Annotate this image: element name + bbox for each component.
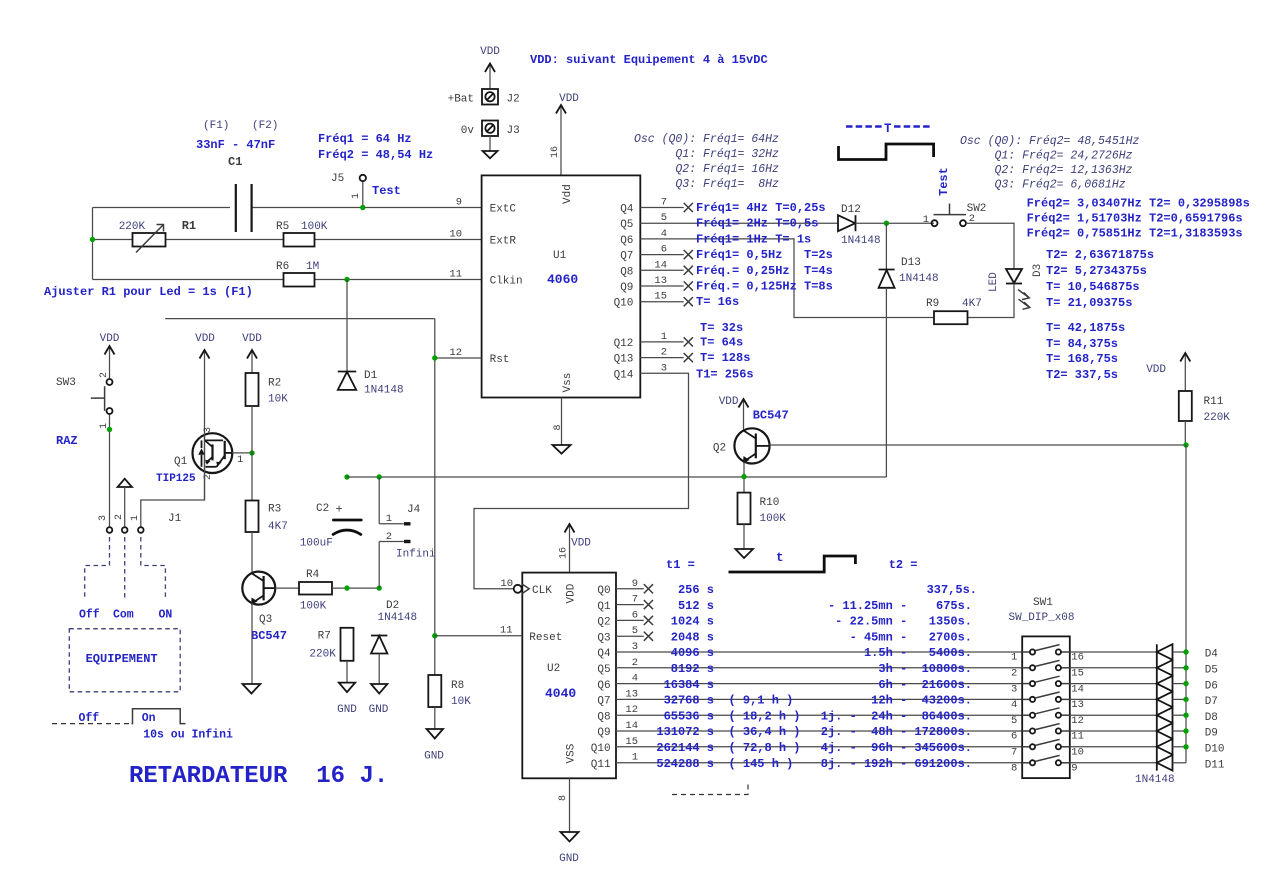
svg-text:4j. - 96h - 345600s.: 4j. - 96h - 345600s. [821, 741, 972, 755]
svg-text:Q6: Q6 [597, 680, 610, 692]
svg-text:VDD: VDD [242, 333, 262, 345]
svg-text:Infini: Infini [396, 549, 436, 561]
label t1 column [656, 583, 800, 771]
svg-text:Q1: Q1 [174, 456, 188, 468]
svg-text:T= 10,546875s: T= 10,546875s [1046, 280, 1140, 294]
svg-text:15: 15 [654, 291, 667, 303]
pin Q7 NC [640, 250, 693, 259]
svg-text:3: 3 [632, 641, 638, 653]
svg-text:ON: ON [159, 609, 173, 622]
svg-text:Test: Test [372, 184, 401, 198]
wire RAZ vertical [434, 319, 436, 675]
svg-text:SW2: SW2 [967, 203, 987, 215]
svg-text:(F2): (F2) [252, 120, 278, 132]
svg-text:7: 7 [1011, 747, 1017, 759]
svg-text:Fréq2= 3,03407Hz T2= 0,3295898: Fréq2= 3,03407Hz T2= 0,3295898s [1027, 197, 1250, 211]
svg-text:1: 1 [632, 752, 638, 764]
wire R8 to ground [434, 707, 436, 729]
waveform t [729, 551, 856, 572]
wire SW3 to rail [109, 414, 111, 527]
svg-text:32768 s: 32768 s [664, 694, 714, 708]
svg-text:Q3: Q3 [597, 632, 610, 644]
diode D1 [338, 370, 404, 397]
wire equipement dashed Off [85, 537, 110, 600]
svg-text:7: 7 [661, 197, 667, 209]
waveform on/off pulse [52, 709, 233, 742]
svg-text:D7: D7 [1205, 696, 1218, 708]
switch SW1 [1009, 597, 1075, 778]
svg-text:J5: J5 [331, 173, 344, 185]
svg-text:4K7: 4K7 [962, 298, 982, 310]
svg-text:10: 10 [1071, 747, 1084, 759]
switch SW1 pole 4 [1011, 692, 1084, 711]
node junction D7 anode [1183, 697, 1188, 702]
svg-text:R5: R5 [276, 221, 289, 233]
svg-text:T1= 256s: T1= 256s [696, 368, 754, 382]
svg-text:Fréq1= 2Hz T=0,5s: Fréq1= 2Hz T=0,5s [696, 217, 818, 231]
label Osc column 1 (italic) [634, 133, 779, 191]
waveform T top right [839, 122, 934, 160]
wire Q6 row [616, 683, 1022, 685]
svg-text:Off: Off [79, 712, 100, 725]
svg-text:9: 9 [632, 578, 638, 590]
connector J5 [331, 173, 366, 208]
svg-text:( 18,2 h ): ( 18,2 h ) [729, 709, 801, 723]
svg-text:LED: LED [988, 272, 1000, 292]
svg-text:Vss: Vss [562, 373, 574, 393]
svg-text:1N4148: 1N4148 [1135, 774, 1175, 786]
svg-text:12: 12 [449, 347, 462, 359]
ground (U2 Vss) [558, 778, 579, 865]
capacitor C2 [300, 503, 361, 550]
svg-text:10K: 10K [451, 696, 471, 708]
svg-text:1N4148: 1N4148 [364, 385, 404, 397]
svg-text:337,5s.: 337,5s. [927, 583, 977, 597]
svg-text:T2= 2,63671875s: T2= 2,63671875s [1046, 248, 1154, 262]
svg-text:1: 1 [237, 454, 243, 466]
svg-text:Q8: Q8 [597, 711, 610, 723]
svg-text:14: 14 [654, 259, 667, 271]
ground (R8) [424, 729, 444, 763]
svg-text:CLK: CLK [532, 585, 552, 597]
svg-text:- 45mn - 2700s.: - 45mn - 2700s. [850, 630, 972, 644]
svg-text:SW3: SW3 [56, 377, 76, 389]
svg-text:Fréq1= 0,5Hz T=2s: Fréq1= 0,5Hz T=2s [696, 248, 833, 262]
capacitor C1 [196, 120, 278, 232]
switch SW3 [56, 371, 113, 429]
svg-text:R2: R2 [268, 378, 281, 390]
svg-text:6: 6 [632, 609, 638, 621]
node junction Reset U2 [432, 633, 437, 638]
svg-text:Q1: Q1 [597, 601, 611, 613]
pin Q0 NC [616, 584, 653, 593]
wire Q1 emitter to J1 [141, 473, 205, 527]
svg-text:10s ou Infini: 10s ou Infini [143, 729, 233, 742]
svg-text:524288 s: 524288 s [656, 757, 714, 771]
svg-text:Q9: Q9 [620, 282, 633, 294]
node junction D2/J4 [377, 585, 382, 590]
power VDD (R11) [1146, 353, 1190, 391]
svg-text:Com: Com [113, 609, 134, 622]
svg-text:VDD: VDD [1146, 364, 1166, 376]
svg-text:SW_DIP_x08: SW_DIP_x08 [1009, 612, 1075, 624]
svg-text:2: 2 [114, 514, 125, 520]
connector J1 [98, 479, 182, 533]
svg-text:EQUIPEMENT: EQUIPEMENT [86, 652, 158, 666]
pin Q13 NC [640, 353, 693, 362]
wire D1/C2 vertical [346, 280, 348, 372]
wire ExtR row [93, 239, 482, 241]
wire Q14 cascade to U2 CLK [474, 373, 689, 589]
svg-text:0v: 0v [461, 125, 475, 137]
svg-text:R1: R1 [182, 219, 196, 233]
node junction Q2 emitter [741, 474, 746, 479]
svg-text:J1: J1 [168, 513, 182, 525]
svg-text:Q4: Q4 [597, 648, 611, 660]
svg-text:t: t [776, 551, 784, 565]
svg-text:Osc (Q0): Fréq2= 48,5451Hz: Osc (Q0): Fréq2= 48,5451Hz [960, 135, 1140, 148]
svg-text:3: 3 [98, 515, 109, 521]
node junction Q1 base [249, 450, 254, 455]
node junction D9 anode [1183, 728, 1188, 733]
node junction R11/base [1183, 442, 1188, 447]
label Off Com ON [79, 609, 172, 622]
resistor R8 [428, 675, 471, 708]
svg-text:R11: R11 [1204, 396, 1224, 408]
svg-text:D6: D6 [1205, 680, 1218, 692]
svg-text:U1: U1 [553, 250, 567, 262]
ground (U1 Vss) [553, 398, 571, 454]
connector J3 [461, 121, 520, 138]
svg-text:8: 8 [558, 795, 569, 801]
svg-text:4: 4 [661, 228, 667, 240]
svg-text:220K: 220K [119, 221, 146, 233]
svg-text:1: 1 [351, 193, 362, 199]
svg-text:T= 84,375s: T= 84,375s [1046, 337, 1118, 351]
wire Q6 to R9 [640, 239, 934, 318]
svg-text:Q13: Q13 [614, 354, 634, 366]
wire SW2 to LED [966, 223, 1014, 269]
svg-text:4096 s: 4096 s [671, 646, 714, 660]
wire R7 to ground [346, 661, 348, 683]
svg-text:Q12: Q12 [614, 338, 634, 350]
svg-text:GND: GND [369, 704, 389, 716]
svg-text:t1 =: t1 = [666, 558, 695, 572]
svg-text:( 145 h ): ( 145 h ) [729, 757, 794, 771]
svg-text:T= 32s: T= 32s [700, 321, 743, 335]
pin Q12 NC [640, 337, 693, 346]
svg-text:BC547: BC547 [251, 629, 287, 643]
pin Q4 NC [640, 203, 693, 212]
svg-text:T2= 5,2734375s: T2= 5,2734375s [1046, 264, 1147, 278]
svg-text:5: 5 [661, 212, 667, 224]
svg-text:13: 13 [1071, 699, 1084, 711]
svg-text:T= 168,75s: T= 168,75s [1046, 352, 1118, 366]
diode D8 [1070, 707, 1218, 724]
svg-text:Q3: Q3 [259, 614, 272, 626]
svg-text:D1: D1 [364, 370, 378, 382]
svg-text:Fréq.= 0,125Hz T=8s: Fréq.= 0,125Hz T=8s [696, 280, 833, 294]
svg-text:14: 14 [1071, 683, 1084, 695]
ground (Q3) [243, 684, 261, 694]
svg-text:8192 s: 8192 s [671, 662, 714, 676]
svg-text:TIP125: TIP125 [156, 473, 196, 485]
wire dashed under table [672, 782, 748, 795]
svg-text:Q9: Q9 [597, 727, 610, 739]
pin Q3 NC [616, 632, 653, 641]
wire Q1 base to R2/R3 [232, 452, 252, 454]
svg-text:Vdd: Vdd [562, 184, 574, 204]
node junction Clkin/D1 [344, 277, 349, 282]
svg-text:Q6: Q6 [620, 235, 633, 247]
svg-text:1: 1 [661, 331, 667, 343]
svg-text:2: 2 [99, 372, 110, 378]
svg-text:Fréq1= 4Hz T=0,25s: Fréq1= 4Hz T=0,25s [696, 201, 826, 215]
wire Clkin row [93, 279, 482, 281]
power 0v flag arrow [483, 136, 498, 158]
svg-text:3: 3 [1011, 683, 1017, 695]
EQUIPEMENT box [69, 629, 180, 692]
wire Q9 row [616, 730, 1022, 732]
svg-text:Fréq2= 0,75851Hz T2=1,3183593s: Fréq2= 0,75851Hz T2=1,3183593s [1027, 227, 1243, 241]
svg-text:262144 s: 262144 s [656, 741, 714, 755]
svg-text:GND: GND [559, 853, 579, 865]
svg-text:On: On [142, 712, 156, 725]
wire left vertical [92, 208, 94, 280]
svg-text:R8: R8 [451, 680, 464, 692]
svg-text:VDD: VDD [719, 396, 739, 408]
svg-text:Fréq1= 1Hz T= 1s: Fréq1= 1Hz T= 1s [696, 232, 811, 246]
svg-text:R3: R3 [268, 504, 281, 516]
svg-text:512 s: 512 s [678, 599, 714, 613]
svg-text:T2= 337,5s: T2= 337,5s [1046, 368, 1118, 382]
svg-text:RAZ: RAZ [56, 434, 78, 448]
svg-text:12: 12 [1071, 715, 1084, 727]
wire R10 to ground [743, 524, 745, 549]
switch SW1 pole 7 [1011, 739, 1084, 758]
node junction D5 anode [1183, 665, 1188, 670]
svg-text:Q7: Q7 [620, 251, 633, 263]
wire R11 to bus [1184, 421, 1186, 445]
power VDD (Q2) [719, 396, 749, 430]
svg-text:Q3: Fréq1= 8Hz: Q3: Fréq1= 8Hz [634, 178, 779, 191]
svg-text:9: 9 [1071, 763, 1077, 775]
wire Q3 base to R4 [275, 587, 299, 589]
diode D4 [1070, 644, 1219, 661]
svg-text:16384 s: 16384 s [664, 678, 714, 692]
svg-text:100K: 100K [301, 221, 328, 233]
wire Q10 row [616, 746, 1022, 748]
svg-text:Fréq1 = 64 Hz: Fréq1 = 64 Hz [318, 132, 412, 146]
svg-text:D5: D5 [1205, 665, 1218, 677]
svg-text:Fréq.= 0,25Hz T=4s: Fréq.= 0,25Hz T=4s [696, 264, 833, 278]
pin numbers U2 right [625, 578, 638, 764]
svg-text:Test: Test [937, 167, 951, 196]
svg-text:16: 16 [559, 547, 570, 559]
transistor Q1 TIP125 [156, 427, 243, 485]
connector J2 [448, 89, 520, 106]
wire diode bus vertical [1185, 445, 1187, 763]
label Freq2/T2 bold block [1027, 197, 1250, 383]
node junction D10 anode [1183, 744, 1188, 749]
switch SW1 pole 8 [1011, 755, 1078, 774]
svg-text:Rst: Rst [490, 354, 510, 366]
svg-text:131072 s: 131072 s [656, 725, 714, 739]
ground (R7) [337, 683, 357, 716]
svg-text:100uF: 100uF [300, 538, 333, 550]
svg-text:Q11: Q11 [591, 759, 611, 771]
svg-text:Fréq2 = 48,54 Hz: Fréq2 = 48,54 Hz [318, 148, 433, 162]
svg-text:+: + [336, 503, 343, 517]
svg-text:Q10: Q10 [614, 298, 634, 310]
svg-text:256 s: 256 s [678, 583, 714, 597]
svg-text:10: 10 [449, 229, 462, 241]
svg-text:4060: 4060 [547, 272, 578, 287]
svg-text:Q10: Q10 [591, 743, 611, 755]
svg-text:VDD: VDD [571, 538, 591, 550]
node junction Rst [432, 355, 437, 360]
svg-text:2: 2 [386, 531, 392, 543]
svg-text:C2: C2 [316, 503, 329, 515]
svg-text:+Bat: +Bat [448, 94, 474, 106]
node junction C2 top / retrig [344, 474, 349, 479]
power VDD (J2) [480, 46, 500, 89]
wire R4 to D2 node [332, 587, 379, 589]
wire R2 to R3 [251, 406, 253, 501]
node junction R1 left [90, 237, 95, 242]
svg-text:1: 1 [386, 513, 392, 525]
LED D3 [988, 264, 1044, 310]
svg-text:VDD: VDD [195, 333, 215, 345]
svg-text:Q0: Q0 [597, 585, 610, 597]
svg-text:6h - 21600s.: 6h - 21600s. [878, 678, 972, 692]
svg-text:12: 12 [625, 704, 638, 716]
svg-text:D12: D12 [841, 204, 861, 216]
svg-text:SW1: SW1 [1033, 597, 1053, 609]
svg-text:1j. - 24h - 86400s.: 1j. - 24h - 86400s. [821, 709, 972, 723]
svg-text:( 9,1 h ): ( 9,1 h ) [729, 694, 794, 708]
label t2 column [821, 583, 977, 771]
svg-text:T= 128s: T= 128s [700, 351, 750, 365]
node junction J4 pin1 [377, 474, 382, 479]
svg-text:Q5: Q5 [597, 664, 610, 676]
svg-text:100K: 100K [760, 513, 787, 525]
svg-text:13: 13 [625, 688, 638, 700]
svg-text:1: 1 [923, 214, 929, 226]
svg-text:1024 s: 1024 s [671, 615, 714, 629]
svg-text:33nF - 47nF: 33nF - 47nF [196, 138, 275, 152]
svg-text:D8: D8 [1205, 712, 1218, 724]
svg-text:VDD: VDD [566, 583, 578, 603]
svg-text:5: 5 [632, 625, 638, 637]
node junction D13 top [884, 221, 889, 226]
svg-text:Fréq2= 1,51703Hz T2=0,6591796s: Fréq2= 1,51703Hz T2=0,6591796s [1027, 212, 1243, 226]
svg-text:Off: Off [79, 609, 100, 622]
svg-text:Q3: Fréq2= 6,0681Hz: Q3: Fréq2= 6,0681Hz [960, 179, 1126, 192]
svg-text:D13: D13 [901, 257, 921, 269]
svg-text:10: 10 [500, 578, 513, 590]
svg-text:220K: 220K [309, 649, 336, 661]
resistor R5 [276, 221, 328, 247]
op-amp U2 4040 box [514, 573, 616, 779]
wire Q4 row [616, 651, 1022, 653]
wire equipement dashed ON [141, 537, 166, 599]
diode D5 [1070, 660, 1218, 677]
svg-text:VSS: VSS [566, 743, 578, 763]
svg-text:8: 8 [553, 424, 564, 430]
pin Q1 NC [616, 600, 653, 609]
svg-text:VDD: VDD [559, 93, 579, 105]
switch SW2 [923, 167, 987, 226]
svg-text:Q2: Fréq1= 16Hz: Q2: Fréq1= 16Hz [634, 163, 779, 176]
node junction SW3 [107, 427, 112, 432]
svg-text:Q1: Fréq1= 32Hz: Q1: Fréq1= 32Hz [634, 148, 779, 161]
svg-text:10K: 10K [268, 394, 288, 406]
pin numbers U1 left [449, 197, 462, 360]
svg-text:ExtC: ExtC [490, 204, 517, 216]
svg-text:T= 21,09375s: T= 21,09375s [1046, 296, 1132, 310]
svg-text:7: 7 [632, 594, 638, 606]
svg-text:2j. - 48h - 172800s.: 2j. - 48h - 172800s. [821, 725, 972, 739]
wire ExtC row [93, 207, 482, 209]
resistor R3 [246, 501, 288, 534]
pin Q8 NC [640, 266, 693, 275]
svg-text:J3: J3 [507, 125, 520, 137]
power VDD (U2) [559, 524, 592, 573]
svg-text:1.5h - 5400s.: 1.5h - 5400s. [864, 646, 972, 660]
svg-text:T= 42,1875s: T= 42,1875s [1046, 321, 1125, 335]
svg-text:R4: R4 [306, 569, 320, 581]
svg-text:3: 3 [661, 362, 667, 374]
svg-text:4: 4 [1011, 699, 1017, 711]
svg-text:2: 2 [1011, 668, 1017, 680]
switch SW1 pole 1 [1011, 645, 1084, 664]
svg-text:Q2: Q2 [713, 442, 726, 454]
svg-text:t2 =: t2 = [889, 558, 918, 572]
power VDD (Q1) [195, 333, 215, 500]
diode D13 [879, 223, 939, 477]
svg-text:T: T [884, 122, 892, 136]
wire retrigger line [347, 476, 886, 478]
switch SW1 pole 3 [1011, 676, 1084, 695]
svg-text:VDD: VDD [480, 46, 500, 58]
switch SW1 pole 6 [1011, 724, 1084, 743]
wire Q8 row [616, 714, 1022, 716]
resistor R1 (potentiometer) [119, 219, 196, 253]
wire Q3 emitter to ground [251, 603, 253, 684]
svg-text:Clkin: Clkin [490, 276, 523, 288]
wire Q5 to D12 [640, 222, 838, 224]
node junction D8 anode [1183, 713, 1188, 718]
label Osc column 2 (italic) [960, 135, 1140, 192]
wire R3 to Q3 [251, 532, 253, 573]
svg-text:11: 11 [1071, 731, 1084, 743]
wire Reset [435, 635, 523, 637]
wire Q2 base bus [769, 444, 1186, 446]
svg-text:1N4148: 1N4148 [899, 273, 939, 285]
svg-text:R10: R10 [760, 497, 780, 509]
switch SW1 pole 2 [1011, 660, 1084, 679]
svg-text:D2: D2 [386, 600, 399, 612]
pin Q10 NC [640, 297, 693, 306]
svg-text:GND: GND [337, 704, 357, 716]
svg-text:4040: 4040 [545, 686, 576, 701]
pin Q2 NC [616, 616, 653, 625]
pin Q9 NC [640, 281, 693, 290]
pin numbers U1 right [654, 197, 667, 375]
svg-text:9: 9 [456, 197, 462, 209]
svg-text:1: 1 [130, 515, 141, 521]
